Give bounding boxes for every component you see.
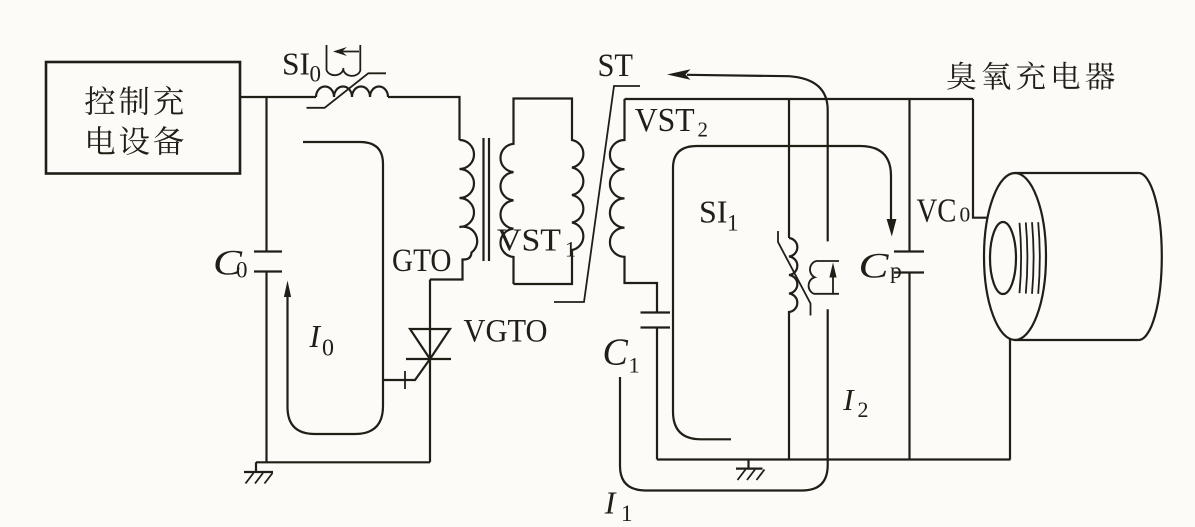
current arrow I1 (lower loop, from C1 to ST) part1 bbox=[620, 309, 828, 490]
svg-text:0: 0 bbox=[960, 202, 971, 226]
top bus wire bbox=[625, 98, 974, 100]
svg-text:GTO: GTO bbox=[392, 243, 452, 279]
svg-text:p: p bbox=[890, 258, 902, 284]
svg-text:1: 1 bbox=[727, 210, 739, 235]
svg-text:VST: VST bbox=[635, 102, 695, 139]
transformer VST1 secondary (U winding) bbox=[500, 99, 583, 285]
svg-text:1: 1 bbox=[621, 501, 633, 526]
current loop I0 (arrow) bbox=[284, 142, 383, 434]
capacitor C1 bbox=[641, 313, 671, 328]
svg-text:SI: SI bbox=[282, 47, 310, 82]
capacitor C0 bbox=[254, 252, 282, 272]
transformer VST1 core bbox=[484, 138, 490, 261]
bottom-right ground rail wire bbox=[657, 458, 1011, 460]
wire from box to SI0 bbox=[240, 96, 316, 98]
ozone generator inner electrode bbox=[990, 222, 1040, 294]
wire top bus to ozone generator electrode bbox=[973, 99, 988, 218]
svg-text:C: C bbox=[859, 245, 890, 285]
svg-text:I: I bbox=[309, 319, 322, 354]
node: junction vertical to C0 bbox=[265, 97, 267, 252]
svg-text:ST: ST bbox=[598, 48, 634, 84]
svg-text:I: I bbox=[604, 485, 617, 521]
wire C1 to bottom rail bbox=[656, 328, 658, 460]
svg-text:1: 1 bbox=[565, 237, 576, 262]
current arrow I2 (to Cp) bbox=[673, 146, 896, 439]
wire ozone generator to bottom rail bbox=[1009, 339, 1011, 460]
SI1 control symbol (bracket with up arrow) bbox=[809, 261, 839, 294]
SI0 control symbol (bracket with left arrow) bbox=[327, 45, 361, 76]
inductor SI1 winding bbox=[789, 238, 797, 460]
ground (left) bbox=[244, 462, 273, 483]
svg-text:1: 1 bbox=[629, 353, 640, 378]
transformer VST1 primary winding bbox=[430, 140, 477, 280]
wire Cp to bottom rail bbox=[908, 273, 910, 460]
svg-text:VGTO: VGTO bbox=[464, 314, 548, 350]
label ozone generator (Chinese) bbox=[947, 61, 1114, 89]
current arrow I1 part2 with arrowhead to ST bbox=[667, 69, 828, 241]
switch ST (slash) bbox=[554, 86, 640, 302]
svg-text:2: 2 bbox=[698, 118, 709, 142]
svg-text:0: 0 bbox=[236, 258, 248, 283]
SI1 saturation slash bbox=[778, 231, 811, 316]
svg-text:2: 2 bbox=[858, 397, 869, 422]
svg-text:0: 0 bbox=[322, 336, 334, 362]
inductor SI0 winding bbox=[316, 87, 388, 98]
ozone generator body (cylinder) bbox=[984, 173, 1162, 340]
svg-text:VST: VST bbox=[497, 222, 561, 258]
thyristor GTO bbox=[384, 280, 451, 463]
svg-text:C: C bbox=[603, 332, 629, 374]
svg-text:VC: VC bbox=[917, 192, 957, 229]
transformer VST2 winding bbox=[610, 99, 657, 313]
wire SI0 to transformer bbox=[388, 97, 460, 140]
svg-text:0: 0 bbox=[310, 62, 322, 87]
SI0 saturation slash bbox=[307, 73, 387, 108]
saturable inductor SI1 branch wire bbox=[788, 99, 790, 238]
wire C0 down to ground rail bbox=[265, 272, 267, 463]
control charging equipment box bbox=[46, 62, 240, 174]
capacitor Cp / VC0 branch bbox=[908, 99, 910, 252]
svg-text:SI: SI bbox=[699, 194, 727, 230]
bottom-left ground rail wire bbox=[256, 461, 430, 463]
ground (right) bbox=[736, 460, 765, 481]
capacitor Cp plates bbox=[894, 252, 924, 273]
svg-text:I: I bbox=[842, 382, 855, 417]
